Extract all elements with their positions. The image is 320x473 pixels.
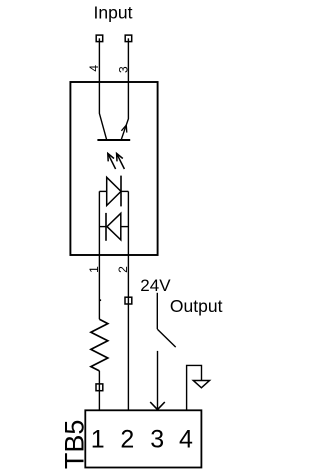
svg-text:1: 1 <box>91 426 105 454</box>
wire D1 anode stub <box>99 190 106 192</box>
wire left rail pin 1 <box>98 191 100 319</box>
light arrow left <box>108 153 116 169</box>
wire D2 left stub <box>99 226 106 228</box>
terminal square on wire 2 <box>125 297 132 304</box>
light arrow right <box>117 153 125 169</box>
svg-text:TB5: TB5 <box>59 420 89 470</box>
svg-text:2: 2 <box>120 426 134 454</box>
svg-text:Input: Input <box>94 3 133 23</box>
terminal square pin 4 input <box>96 35 103 42</box>
svg-text:4: 4 <box>179 426 193 454</box>
wire D2 right stub <box>121 226 129 228</box>
LED D2 bottom diode (pointing left) <box>107 213 121 240</box>
ground symbol (open arrow) <box>193 381 209 388</box>
wire ground from TB5 pin4 <box>187 365 202 410</box>
svg-text:Output: Output <box>170 296 223 316</box>
wire pin4 stub from terminal center <box>98 38 100 82</box>
wire switch to TB5 pin3 <box>157 351 159 410</box>
optocoupler box U1 <box>70 82 157 255</box>
wire below resistor to TB5 pin1 <box>98 371 100 410</box>
svg-text:3: 3 <box>150 426 164 454</box>
phototransistor Q1 emitter arrow <box>121 125 126 133</box>
phototransistor Q1 base bar <box>97 139 130 141</box>
terminal square pin 3 input <box>125 35 132 42</box>
LED D1 top diode (anode left, pointing right) <box>107 177 121 205</box>
phototransistor Q1 collector lead (pin 4 side) <box>99 82 106 139</box>
svg-text:1: 1 <box>87 266 101 273</box>
wire D1 cathode stub <box>121 190 128 192</box>
terminal block TB5 box <box>85 410 201 467</box>
switch S1 upper lead from 24V <box>156 293 158 329</box>
svg-text:3: 3 <box>116 66 130 73</box>
terminal square on wire 1 <box>96 384 103 391</box>
arrow into TB5 pin3 <box>150 402 165 410</box>
wire right rail pin 2 <box>127 191 129 410</box>
phototransistor Q1 emitter lead (pin 3 side) <box>121 82 128 139</box>
svg-text:24V: 24V <box>140 276 171 295</box>
LED D1 cathode bar <box>120 176 122 207</box>
junction nub on wire 1 <box>99 299 101 301</box>
svg-text:4: 4 <box>87 65 101 72</box>
LED D2 cathode bar <box>105 213 107 241</box>
wire pin3 stub from terminal center <box>127 38 129 82</box>
resistor R1 <box>91 319 108 371</box>
switch S1 blade <box>157 329 175 347</box>
svg-text:2: 2 <box>116 266 130 273</box>
